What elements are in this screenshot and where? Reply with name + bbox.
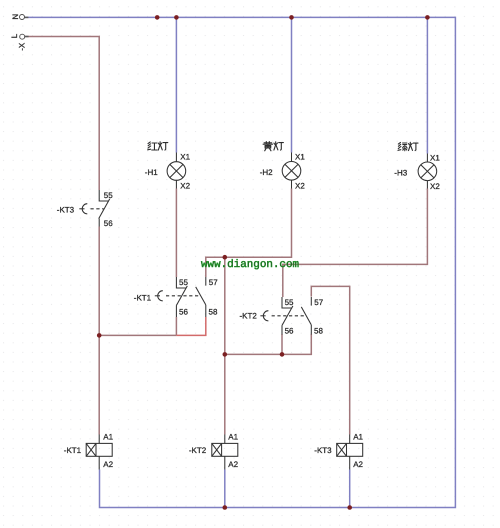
svg-text:-KT2: -KT2 bbox=[189, 446, 207, 455]
svg-text:56: 56 bbox=[179, 308, 188, 317]
svg-text:N: N bbox=[11, 14, 20, 20]
terminal N bbox=[20, 15, 29, 20]
svg-text:-KT1: -KT1 bbox=[134, 294, 152, 303]
svg-text:L: L bbox=[10, 33, 19, 38]
label 红灯 (red lamp) bbox=[148, 142, 168, 150]
coil KT3 bbox=[337, 435, 363, 470]
coil KT1 bbox=[86, 435, 112, 470]
svg-text:-KT2: -KT2 bbox=[240, 312, 258, 321]
svg-text:A2: A2 bbox=[103, 460, 113, 469]
wire N top rail / right rail / bottom rail (blue neutral) bbox=[25, 17, 456, 507]
svg-text:55: 55 bbox=[104, 191, 113, 200]
svg-text:-KT3: -KT3 bbox=[57, 206, 75, 215]
junction dot bottom rail at KT2 A2 bbox=[223, 505, 228, 510]
svg-text:-X: -X bbox=[17, 42, 26, 51]
svg-text:X2: X2 bbox=[430, 182, 440, 191]
timer contact KT1 (changeover 55-56 / 57-58) bbox=[155, 277, 206, 317]
svg-text:57: 57 bbox=[209, 278, 218, 287]
junction dot yellow node bbox=[223, 255, 228, 260]
junction dot top rail at H1 drop bbox=[174, 15, 179, 20]
svg-text:58: 58 bbox=[314, 327, 323, 336]
watermark www.diangon.com bbox=[201, 259, 299, 271]
wire KT3 coil A2 to bottom rail bbox=[349, 470, 351, 508]
timer contact KT3 (NC, 55-56) bbox=[79, 190, 109, 227]
wire KT2 coil A2 to bottom rail bbox=[224, 470, 226, 508]
label 绿灯 (green lamp) bbox=[398, 142, 418, 150]
wire KT2 contact 57 over to KT3 coil A1 bbox=[311, 286, 349, 434]
wire lamp H3 feed drop bbox=[426, 17, 428, 153]
svg-text:-H1: -H1 bbox=[145, 168, 158, 177]
junction dot KT2 56 at output horizontal bbox=[280, 352, 285, 357]
wire lamp H2 X2 down and left to KT1 contact 57 bbox=[206, 189, 292, 278]
wire lamp H1 X2 down to KT1 contact 55 bbox=[175, 189, 177, 278]
wire lamp H1 feed drop bbox=[175, 17, 177, 152]
wire KT1 contact 56 down to rail link bbox=[175, 317, 177, 335]
svg-text:X2: X2 bbox=[295, 181, 305, 190]
wire KT2 output horizontal bbox=[225, 334, 311, 354]
svg-text:X1: X1 bbox=[180, 153, 190, 162]
wire node yellow to KT2 coil A1 bbox=[224, 257, 226, 434]
wire KT2 contact 56 down bbox=[281, 334, 283, 354]
wire lamp H2 feed drop bbox=[291, 17, 293, 152]
timer contact KT2 (changeover 55-56 / 57-58) bbox=[260, 297, 311, 335]
svg-text:55: 55 bbox=[285, 298, 294, 307]
svg-text:A1: A1 bbox=[228, 433, 238, 442]
wire left rail below KT3 contact down to KT1 coil A1 bbox=[98, 227, 100, 435]
lamp H2 (yellow) bbox=[282, 153, 301, 189]
svg-text:57: 57 bbox=[314, 298, 323, 307]
svg-text:X1: X1 bbox=[430, 154, 440, 163]
terminal L bbox=[20, 34, 29, 39]
junction dot top rail at H2 drop bbox=[289, 15, 294, 20]
svg-text:-KT3: -KT3 bbox=[314, 446, 332, 455]
svg-text:-H2: -H2 bbox=[260, 168, 273, 177]
svg-text:A1: A1 bbox=[103, 433, 113, 442]
wire L phase to left rail top bbox=[25, 37, 99, 191]
wire lamp H3 X2 down and left to KT2 contact 55 bbox=[283, 189, 428, 298]
svg-text:55: 55 bbox=[179, 278, 188, 287]
svg-text:X2: X2 bbox=[180, 181, 190, 190]
svg-text:A2: A2 bbox=[353, 460, 363, 469]
svg-text:A2: A2 bbox=[228, 460, 238, 469]
svg-text:-H3: -H3 bbox=[394, 168, 407, 177]
coil KT2 bbox=[212, 435, 238, 470]
svg-text:56: 56 bbox=[104, 219, 113, 228]
lamp H1 (red) bbox=[167, 153, 186, 189]
junction dot top rail at H3 drop bbox=[425, 15, 430, 20]
junction dot top rail x157 bbox=[155, 15, 160, 20]
junction dot left rail at KT1 output link bbox=[97, 333, 102, 338]
svg-text:X1: X1 bbox=[295, 153, 305, 162]
wire KT1 56-58 link (bright red) bbox=[176, 317, 205, 335]
svg-text:-KT1: -KT1 bbox=[64, 446, 82, 455]
wire KT1 outputs to left rail (dark part) bbox=[99, 334, 176, 336]
svg-text:www.diangon.com: www.diangon.com bbox=[201, 259, 299, 271]
svg-text:56: 56 bbox=[285, 327, 294, 336]
svg-text:58: 58 bbox=[209, 308, 218, 317]
svg-text:A1: A1 bbox=[353, 433, 363, 442]
label 黄灯 (yellow lamp) bbox=[263, 142, 283, 151]
lamp H3 (green) bbox=[418, 154, 437, 189]
junction dot bottom rail at KT3 A2 bbox=[347, 505, 352, 510]
junction dot KT2 feed at output horizontal bbox=[223, 352, 228, 357]
